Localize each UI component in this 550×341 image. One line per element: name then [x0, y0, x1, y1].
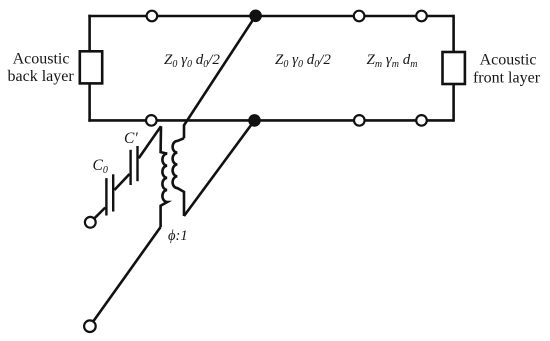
node open circle top-right	[416, 11, 427, 22]
wire bottom rail	[88, 119, 453, 122]
node open circle bottom-left	[146, 115, 157, 126]
wire diagonal from secondary bottom to lower terminal	[94, 227, 161, 321]
svg-text:Z0 γ0 d0/2: Z0 γ0 d0/2	[164, 52, 220, 70]
terminal open circle lower (electrical port -)	[84, 320, 96, 332]
wire diagonal from secondary top to capacitor C'	[139, 126, 161, 158]
transformer secondary winding (left coil)	[161, 126, 168, 227]
node open circle bottom-right	[416, 115, 427, 126]
svg-text:C0: C0	[93, 157, 108, 176]
capacitor C' left plate	[129, 150, 131, 185]
wire left vertical lower	[88, 83, 91, 121]
wire from C0 to upper terminal	[94, 208, 105, 219]
svg-text:Zm γm dm: Zm γm dm	[367, 52, 418, 70]
node open circle top-mid-right	[354, 11, 365, 22]
wire right vertical lower	[452, 84, 455, 122]
node open circle top-left	[147, 11, 158, 22]
svg-text:front layer: front layer	[473, 70, 541, 87]
wire left vertical upper	[88, 15, 91, 52]
wire diagonal from primary bottom to bottom node	[184, 120, 255, 216]
junction dot top	[249, 10, 262, 23]
svg-text:Z0 γ0 d0/2: Z0 γ0 d0/2	[275, 52, 331, 70]
wire top rail	[88, 15, 453, 18]
wire right vertical upper	[452, 15, 455, 52]
wire diagonal from top node to transformer primary	[184, 16, 256, 138]
node open circle bottom-mid-right	[354, 115, 365, 126]
acoustic front layer port (rectangle)	[443, 52, 465, 84]
transformer primary winding (right coil)	[173, 138, 184, 216]
acoustic back layer port (rectangle)	[80, 51, 102, 83]
svg-text:ϕ:1: ϕ:1	[168, 228, 188, 244]
capacitor C' right plate	[136, 146, 138, 181]
wire between C' and C0	[114, 174, 129, 190]
capacitor C0 right plate	[112, 174, 114, 211]
svg-text:C′: C′	[124, 130, 138, 147]
svg-text:Acoustic: Acoustic	[480, 52, 537, 69]
capacitor C0 left plate	[105, 178, 107, 215]
svg-text:Acoustic: Acoustic	[13, 51, 70, 68]
svg-text:back layer: back layer	[8, 68, 75, 85]
junction dot bottom	[248, 114, 261, 127]
terminal open circle upper (electrical port +)	[85, 217, 96, 228]
